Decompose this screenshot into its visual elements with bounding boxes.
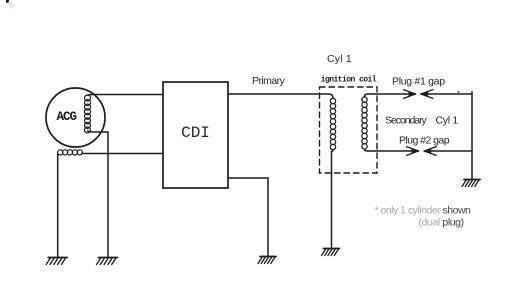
ignition coil secondary winding — [362, 97, 367, 149]
svg-text:CDI: CDI — [181, 124, 210, 142]
svg-text:* only 1 cylinder shown: * only 1 cylinder shown — [375, 204, 472, 216]
alternator ACG — [46, 88, 105, 147]
spark gap plug 1 right electrode — [421, 93, 472, 95]
spark gap plug 2 right electrode — [424, 150, 472, 152]
ignition coil dashed enclosure — [320, 87, 378, 173]
wire: CDI bottom to ground — [228, 178, 268, 256]
svg-text:Primary: Primary — [252, 75, 286, 87]
wire: charge coil top to CDI — [88, 94, 164, 97]
wire: CDI output Primary to ignition coil — [228, 94, 333, 98]
corner mark — [6, 0, 9, 3]
ground (trigger coil) — [46, 258, 67, 265]
ground (plug return) — [462, 180, 480, 187]
svg-text:ACG: ACG — [57, 110, 77, 124]
svg-text:Cyl 1: Cyl 1 — [327, 53, 352, 65]
wire: trigger coil left down to ground — [57, 154, 59, 257]
wire: trigger coil to CDI — [82, 153, 163, 155]
wire+spark gap: secondary bottom to plug 2 left electrode — [365, 149, 369, 151]
charge coil (inside ACG) — [85, 95, 91, 133]
ground (CDI) — [258, 257, 276, 264]
ignition coil primary winding — [330, 98, 335, 149]
CDI unit box — [163, 82, 228, 188]
trigger pickup coil — [58, 150, 83, 155]
wire: charge coil bottom, right then down to ground — [88, 131, 109, 257]
wire+spark gap: secondary top to plug 1 left electrode — [365, 94, 369, 97]
svg-text:Plug #2 gap: Plug #2 gap — [399, 134, 450, 146]
svg-text:ignition coil: ignition coil — [321, 76, 377, 85]
wire: plug return bus down to ground — [471, 92, 473, 179]
svg-text:Plug #1 gap: Plug #1 gap — [392, 76, 445, 88]
svg-text:(dual plug): (dual plug) — [419, 216, 464, 228]
ground (under ACG coil return) — [97, 258, 118, 265]
wire: primary winding bottom down to ground — [332, 150, 334, 248]
svg-text:Cyl 1: Cyl 1 — [436, 115, 459, 127]
ground (ignition primary) — [322, 249, 340, 256]
svg-text:Secondary: Secondary — [385, 115, 428, 127]
